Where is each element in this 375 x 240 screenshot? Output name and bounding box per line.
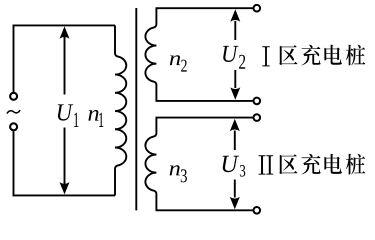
terminal n3 top — [253, 114, 260, 121]
wire n2 bottom — [156, 100, 253, 102]
wire primary left lower — [13, 131, 15, 196]
label U3 — [223, 156, 246, 177]
wire n3 bottom — [156, 209, 253, 211]
wire n3 top — [156, 117, 253, 119]
winding n1 — [115, 25, 126, 195]
label n2 — [170, 55, 187, 71]
label n1 — [88, 110, 103, 127]
voltage arrow U3 — [230, 119, 240, 209]
wire primary left upper — [13, 25, 15, 93]
transformer core — [135, 8, 137, 210]
terminal upper left — [10, 93, 17, 100]
wire primary bottom — [13, 194, 115, 196]
label zone I text — [262, 45, 365, 67]
label U1 — [58, 104, 79, 127]
wire primary top — [13, 24, 115, 26]
label U2 — [223, 46, 245, 69]
winding n3 — [145, 118, 156, 211]
label zone II text — [259, 154, 366, 175]
wire n2 top — [156, 7, 253, 9]
label n3 — [170, 165, 187, 182]
voltage arrow U1 — [60, 26, 70, 194]
terminal n2 bottom — [253, 98, 260, 105]
terminal lower left — [10, 123, 17, 130]
terminal n3 bottom — [253, 207, 260, 214]
terminal n2 top — [253, 5, 260, 12]
winding n2 — [145, 8, 156, 101]
ac source tilde — [7, 110, 20, 114]
voltage arrow U2 — [230, 9, 240, 99]
